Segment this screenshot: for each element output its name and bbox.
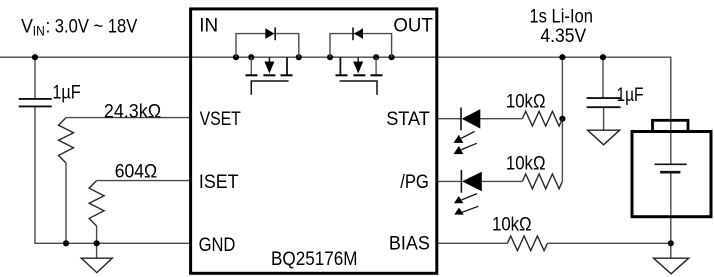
svg-text:GND: GND [199,235,236,256]
wire status pull-up rail vertical [561,57,563,181]
node output cap junction [600,54,606,60]
svg-text:BIAS: BIAS [389,234,430,255]
transistor Q1 [246,57,293,95]
svg-text:STAT: STAT [386,109,430,130]
resistor 10kΩ /PG [522,174,562,189]
svg-text:10kΩ: 10kΩ [506,92,546,113]
svg-text:604Ω: 604Ω [115,162,158,183]
ground output cap [588,130,620,145]
svg-text:1µF: 1µF [52,82,80,103]
node Q2 body diode right junction [389,54,395,60]
node STAT resistor junction [559,116,565,122]
node Q2 body diode left junction [327,54,333,60]
LED STAT [454,108,481,155]
wire /PG LED to resistor [482,180,523,182]
svg-text:OUT: OUT [393,15,433,36]
label VIN range [21,16,137,38]
node Q2 source junction [373,54,379,60]
wire STAT LED to resistor [480,118,522,120]
wire BIAS pin to resistor [438,242,507,244]
wire VSET horizontal [66,117,189,119]
ground battery [654,258,689,274]
svg-text:V: V [21,16,33,37]
node Q1 body diode left junction [233,54,239,60]
node GND rail junction R2 [94,240,100,246]
wire input cap branch [34,57,36,99]
svg-text:BQ25176M: BQ25176M [271,249,358,270]
transistor Q2 body diode loop [330,34,392,58]
svg-text:/PG: /PG [400,172,429,193]
node battery negative junction [668,240,674,246]
node GND rail junction R1 [63,240,69,246]
svg-text:ISET: ISET [199,172,239,193]
capacitor input 1µF [19,99,52,107]
node Q1 body diode right junction [296,54,302,60]
wire ISET horizontal [97,180,189,182]
wire BIAS resistor to battery negative node [547,242,670,244]
wire output cap to ground [603,107,605,130]
wire 24.3k resistor bottom lead [65,163,67,243]
IC U1 BQ25176M outline [191,9,437,273]
node input junction [32,54,38,60]
resistor 24.3kΩ [59,118,74,163]
svg-text:IN: IN [33,23,45,38]
svg-text:10kΩ: 10kΩ [492,215,532,236]
wire left ground stub [96,243,98,258]
node Q1 source junction [248,54,254,60]
svg-text:: 3.0V ~ 18V: : 3.0V ~ 18V [46,16,138,37]
node pull-up rail top junction [559,54,565,60]
svg-text:24.3kΩ: 24.3kΩ [104,101,161,122]
wire 604 resistor bottom lead [96,226,98,243]
resistor 10kΩ STAT [522,111,562,126]
diode D2 (Q2 body) [353,27,363,40]
battery cell symbol [655,164,687,172]
ground left [81,258,112,272]
diode D1 (Q1 body) [265,27,275,40]
svg-text:IN: IN [199,15,218,36]
LED /PG [454,170,482,215]
capacitor output 1µF [587,98,621,107]
wire STAT pin to LED [438,118,461,120]
svg-text:4.35V: 4.35V [540,26,586,47]
svg-text:VSET: VSET [200,109,241,130]
wire /PG pin to LED [438,180,461,182]
transistor Q2 [336,57,383,95]
svg-text:1s Li-Ion: 1s Li-Ion [529,7,593,28]
svg-text:10kΩ: 10kΩ [506,154,546,175]
svg-text:1µF: 1µF [617,85,644,106]
resistor 604Ω [89,181,104,226]
wire battery negative to ground [670,172,672,258]
wire output cap branch [602,57,604,98]
wire input rail VIN to battery top [0,57,671,164]
transistor Q1 body diode loop [236,34,299,58]
resistor 10kΩ BIAS [507,236,547,251]
battery pack outline [632,120,711,216]
wire input cap bottom to GND rail to GND pin [35,106,189,243]
